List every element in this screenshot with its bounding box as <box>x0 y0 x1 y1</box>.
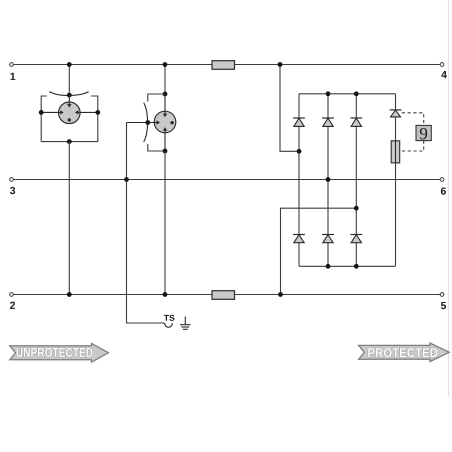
node F1 bracket left <box>39 110 44 115</box>
diode D5 <box>322 235 334 243</box>
wire F2 top feed <box>164 65 166 95</box>
wire line 2-5 bottom rail <box>14 294 440 296</box>
resistor R2 bottom <box>212 291 235 300</box>
node rail2 F2 <box>163 292 168 297</box>
spark-gap arc F2 <box>144 103 148 142</box>
electrode dot F2 right <box>170 121 173 124</box>
label PROTECTED <box>368 348 437 357</box>
node F2 top <box>163 92 168 97</box>
node block feed <box>297 149 302 154</box>
diode D6 <box>350 235 362 243</box>
node F1 bracket right <box>95 110 100 115</box>
electrode arrow F2 top <box>164 94 166 114</box>
bracket F2 top <box>148 94 165 102</box>
monitor box U1 <box>416 125 431 140</box>
wire top feed to block <box>280 65 299 152</box>
node top rail c2 <box>326 91 331 96</box>
wire diode column 4 <box>395 94 397 266</box>
wire line 1-4 top rail <box>14 64 440 66</box>
label 9 (thermal monitor) <box>420 128 427 139</box>
pin label 3 <box>10 187 15 194</box>
wire mid tap <box>281 208 357 294</box>
dashed link to thermal monitor <box>400 113 424 151</box>
label TS <box>164 315 175 321</box>
bracket F2 bottom <box>148 144 165 151</box>
node F2 bottom <box>163 149 168 154</box>
electrode arrow F2 left <box>127 122 157 124</box>
wire inner top rail <box>299 93 396 95</box>
wire diode column 2 <box>327 94 329 266</box>
node rail2 F1 <box>67 292 72 297</box>
diode D2 <box>322 118 334 126</box>
wire inner bottom rail <box>299 265 396 267</box>
electrode arrow F1 right <box>78 111 97 113</box>
diode D3 <box>350 118 362 126</box>
pin label 5 <box>441 302 446 309</box>
node rail1 F1 <box>67 62 72 67</box>
node mid tap c3 <box>354 206 359 211</box>
terminal 5 <box>440 293 444 297</box>
label UNPROTECTED <box>17 348 93 357</box>
node F1 top <box>67 93 72 98</box>
resistor R1 top <box>212 61 235 70</box>
GDT circle F1 <box>59 102 81 124</box>
terminal 2 <box>10 293 14 297</box>
terminal 1 <box>10 63 14 67</box>
pin label 4 <box>441 71 447 78</box>
arrow banner PROTECTED <box>359 343 450 362</box>
wire diode column 3 <box>355 94 357 266</box>
ground <box>180 317 191 330</box>
test socket TS <box>164 315 175 327</box>
node bottom rail c2 <box>326 264 331 269</box>
terminal 3 <box>10 178 14 182</box>
bracket F1 left <box>41 96 47 142</box>
wire F2 to rail 2 <box>164 151 166 295</box>
wire diode column 1 <box>298 94 300 266</box>
wire F1 top feed <box>68 65 70 96</box>
node rail6 c2 <box>326 177 331 182</box>
diode D1 <box>293 118 305 126</box>
GDT circle F2 <box>154 111 176 133</box>
node F2 electrode on rail 3 <box>124 177 129 182</box>
wire line 3-6 middle rail <box>14 179 440 181</box>
electrode arrow F1 left <box>41 111 60 113</box>
page border right <box>448 0 450 397</box>
node rail2 block <box>278 292 283 297</box>
spark-gap arc F1 <box>49 92 88 96</box>
wire F2 left electrode down to TS <box>127 123 165 324</box>
electrode arrow F1 top <box>68 95 70 104</box>
terminal 4 <box>440 63 444 67</box>
node rail1 F2 <box>163 62 168 67</box>
terminal 6 <box>440 178 444 182</box>
node bottom rail c3 <box>354 264 359 269</box>
pin label 2 <box>10 302 15 309</box>
node F1 bottom <box>67 139 72 144</box>
electrode dot F1 bottom <box>68 118 71 121</box>
fuse F3 <box>391 141 400 163</box>
diode D4 <box>293 235 305 243</box>
bracket F1 bottom <box>41 141 98 143</box>
wire F1 to rail 2 <box>68 142 70 295</box>
electrode arrow F2 bottom <box>164 131 166 151</box>
bracket F1 right <box>91 96 98 142</box>
pin label 1 <box>11 73 16 80</box>
node rail1 block <box>278 62 283 67</box>
diode D7 <box>390 110 402 117</box>
pin label 6 <box>441 187 446 194</box>
wire through fuse F3 <box>395 141 397 163</box>
node top rail c3 <box>354 91 359 96</box>
arrow banner UNPROTECTED <box>10 343 109 362</box>
node F2 arc <box>145 120 150 125</box>
